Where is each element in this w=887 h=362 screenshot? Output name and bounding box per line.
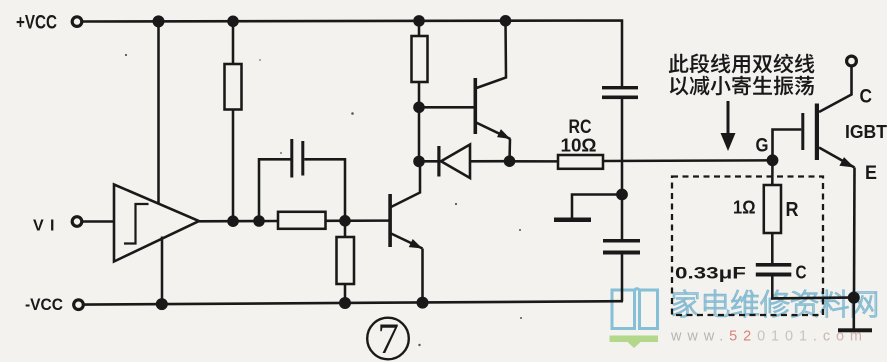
- resistor R snubber 1ohm: [771, 160, 774, 185]
- wire RC to gate node G: [603, 159, 773, 162]
- wire IGBT gate: [773, 130, 802, 161]
- wire bottom rail right segment: [771, 296, 849, 299]
- resistor R1 pull-up: [232, 21, 235, 64]
- svg-text:www.520101.com: www.520101.com: [670, 329, 862, 345]
- node E rail junction: [848, 292, 860, 304]
- svg-text:-VCC: -VCC: [25, 295, 63, 314]
- terminal -VCC: [74, 300, 84, 310]
- capacitor C1 supply: [602, 86, 638, 89]
- node output R1 junction: [227, 215, 239, 227]
- node B R3-R4 junction: [339, 215, 351, 227]
- op-amp U1 comparator: [114, 185, 199, 262]
- wire diode node to RC resistor: [510, 160, 559, 163]
- svg-text:G: G: [756, 136, 769, 157]
- node gate G: [767, 154, 779, 166]
- svg-text:R: R: [786, 199, 799, 221]
- resistor R2: [418, 21, 421, 36]
- resistor R3: [278, 212, 326, 229]
- wire top +VCC rail: [83, 21, 622, 87]
- annotation text line 1: [669, 54, 815, 74]
- snubber dashed box: [672, 177, 823, 316]
- annotation text line 2: [670, 76, 814, 96]
- ground G2 emitter: [852, 298, 855, 329]
- node top rail junction 2: [227, 15, 239, 27]
- terminal VI input: [72, 217, 82, 227]
- capacitor C2 supply: [621, 195, 624, 240]
- node top rail junction 4: [500, 15, 512, 27]
- svg-text:10Ω: 10Ω: [561, 136, 597, 156]
- svg-text:C: C: [860, 87, 873, 108]
- svg-text:+VCC: +VCC: [16, 13, 57, 34]
- node -VCC rail R4 junction: [339, 297, 351, 309]
- node R2 Q1-base junction: [413, 102, 425, 114]
- node top rail junction 1: [153, 15, 165, 27]
- wire bottom -VCC rail left segment: [84, 301, 623, 304]
- wire Q1 base: [419, 106, 474, 109]
- annotation arrow: [727, 101, 730, 136]
- figure number 7: [367, 318, 409, 360]
- watermark logo book: [612, 289, 658, 329]
- svg-text:IGBT: IGBT: [845, 122, 887, 142]
- resistor R4: [344, 221, 347, 237]
- capacitor C snubber 0.33uF: [756, 263, 792, 267]
- wire R3 to Q2 base: [326, 219, 389, 222]
- svg-text:7: 7: [378, 316, 400, 362]
- svg-text:0.33μF: 0.33μF: [675, 264, 746, 283]
- IGBT Q3: [801, 113, 804, 150]
- wire op-amp -V supply: [161, 237, 164, 305]
- svg-text:E: E: [865, 163, 877, 184]
- watermark text: [673, 290, 877, 318]
- node top rail junction 3: [413, 15, 425, 27]
- svg-text:C: C: [796, 263, 807, 283]
- node output C3 junction: [253, 215, 265, 227]
- transistor Q2 NPN: [388, 194, 392, 247]
- svg-text:1Ω: 1Ω: [733, 198, 756, 218]
- watermark logo book base: [610, 336, 659, 349]
- svg-text:VI: VI: [33, 218, 54, 235]
- terminal +VCC: [72, 17, 82, 27]
- ground G1 mid: [616, 189, 628, 201]
- diode D1: [419, 160, 438, 163]
- transistor Q1 NPN: [474, 78, 478, 134]
- terminal C collector: [847, 56, 857, 66]
- node -VCC rail Q2 emitter junction: [417, 297, 429, 309]
- wire op-amp +V supply: [157, 21, 160, 204]
- node Q1 emitter diode anode junction: [504, 155, 516, 167]
- node diode cathode junction: [413, 156, 425, 168]
- wire op-amp output line: [199, 220, 278, 223]
- capacitor C3 feedback: [259, 159, 291, 221]
- node -VCC rail op-amp junction: [156, 298, 168, 310]
- resistor RC 10ohm: [558, 155, 603, 169]
